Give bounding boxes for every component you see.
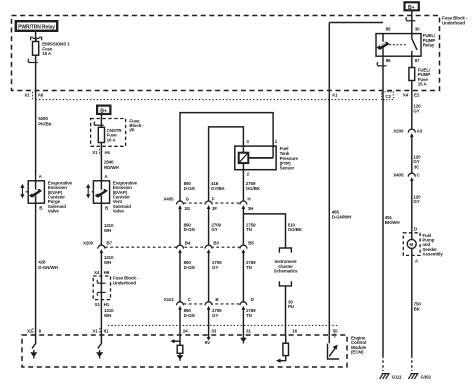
ECM internal circuit pin 24 (arrow, resistor, ground) <box>171 335 183 361</box>
CNSTR fuse label <box>107 128 123 142</box>
D pin label <box>414 226 418 231</box>
wire label 451 BK/WH <box>385 215 400 225</box>
Fuel Tank Pressure sensor <box>235 146 276 170</box>
X405 / C connector <box>393 173 420 181</box>
B+ battery feed (top) <box>405 2 419 11</box>
wire 890 D-GN (B4 to X101) <box>179 253 181 302</box>
svg-text:15 A: 15 A <box>42 51 52 56</box>
svg-text:H6: H6 <box>104 270 110 275</box>
svg-text:Valve: Valve <box>48 209 60 214</box>
wire 428 D-GN/WH <box>35 203 37 335</box>
svg-text:16: 16 <box>292 329 297 334</box>
svg-text:I/P: I/P <box>129 128 134 133</box>
wire 30 PU <box>285 286 287 335</box>
Fuse Block Underhood small label <box>113 276 139 286</box>
X405 pin H connector <box>240 196 251 208</box>
X4 / E2 labels <box>403 93 420 98</box>
connector tick at X2/8 <box>32 328 34 335</box>
svg-text:X200: X200 <box>393 129 404 134</box>
clip terminal below relay 86 <box>377 62 387 66</box>
svg-text:TN: TN <box>246 265 252 270</box>
svg-text:WH: WH <box>104 313 111 318</box>
clip terminal above CNSTR fuse <box>94 122 104 126</box>
wire label 2759 OG/BK (above X405) <box>246 181 261 191</box>
wire label 750 BK <box>414 302 422 312</box>
Fuel Pump and Sender Assembly label <box>422 233 443 257</box>
relay coil rail <box>329 22 383 24</box>
EMISSIONS 1 fuse label <box>42 42 70 56</box>
svg-text:GY: GY <box>211 227 217 232</box>
svg-text:2840: 2840 <box>104 159 114 164</box>
svg-text:X4: X4 <box>403 93 409 98</box>
svg-text:33: 33 <box>211 329 216 334</box>
dotted harness line (upper) <box>36 99 379 101</box>
X101 connector row dashed line <box>184 303 241 305</box>
wire label 2709 GY (below X200) <box>212 260 222 270</box>
svg-text:GY/BK: GY/BK <box>211 186 226 191</box>
svg-text:OG/BK: OG/BK <box>246 186 261 191</box>
ECM box (dashed) <box>22 335 347 367</box>
svg-text:D-GN/WH: D-GN/WH <box>38 265 57 270</box>
svg-text:31: 31 <box>246 329 251 334</box>
svg-text:X405: X405 <box>163 196 174 201</box>
EVAP purge valve label <box>48 180 73 213</box>
svg-text:87: 87 <box>415 58 420 63</box>
FTP pin labels <box>246 139 277 177</box>
wire label 2759 TN (below X101) <box>246 308 256 318</box>
svg-text:30: 30 <box>415 26 420 31</box>
svg-text:M: M <box>410 242 414 247</box>
X200 connector row dashed line <box>105 246 240 248</box>
wire label 465 D-GN/WH <box>332 210 351 220</box>
svg-text:A6: A6 <box>104 150 110 155</box>
svg-text:X4: X4 <box>94 270 100 275</box>
svg-text:TN: TN <box>246 313 252 318</box>
X200 pin B4 connector <box>177 241 191 253</box>
fuse EMISSIONS 1 <box>33 42 39 56</box>
Fuse Block Underhood small dashed box <box>93 276 110 300</box>
svg-text:X405: X405 <box>393 173 404 178</box>
Fuse Block - Underhood box (top, dashed) <box>12 16 440 91</box>
svg-text:GY: GY <box>212 265 218 270</box>
svg-text:D-GN: D-GN <box>184 313 195 318</box>
EVAP canister purge solenoid valve <box>21 181 45 203</box>
svg-text:3F: 3F <box>212 206 217 211</box>
wire 2709 GY (X101 to ECM pin 33) <box>208 310 210 336</box>
X200 pin B7 connector <box>98 241 113 253</box>
Instrument Cluster Schematics label <box>274 259 298 273</box>
svg-text:GY: GY <box>413 159 419 164</box>
wire 2759 TN (X405 to B5) <box>242 209 244 246</box>
PWR/TRN Relay label box <box>16 21 57 31</box>
FTP 5V return rail (pin 1 to X405 G) <box>180 113 273 202</box>
connector tick at X1/A6 <box>32 92 34 100</box>
connector tick at X1/61 <box>99 328 101 335</box>
dashed wire to G111 <box>382 356 384 372</box>
wire label 890 D-GN (below X405) <box>184 222 195 232</box>
FTP sensor label <box>280 146 299 171</box>
dashed wire to G302 <box>411 356 413 372</box>
svg-text:X101: X101 <box>164 297 175 302</box>
X200 pin B5 connector <box>240 241 254 253</box>
wire B+ to relay 30 <box>411 10 413 33</box>
svg-text:D-GN/WH: D-GN/WH <box>332 214 351 219</box>
EVAP purge valve pin labels <box>39 174 44 210</box>
svg-text:24: 24 <box>183 329 188 334</box>
wire label 2759 TN <box>246 222 256 232</box>
ECM pin labels 24 33 31 16 50 <box>183 329 338 334</box>
EVAP vent valve pin labels <box>104 174 109 210</box>
svg-text:3C: 3C <box>414 165 420 170</box>
X405 label <box>163 196 174 201</box>
relay pin labels <box>386 26 420 63</box>
svg-text:BK/WH: BK/WH <box>385 220 400 225</box>
wire label 120 GY <box>413 194 421 204</box>
svg-text:61: 61 <box>104 329 109 334</box>
3C pin label <box>414 165 420 170</box>
ECM internal 5V reference (pin 33) <box>205 335 211 345</box>
wire through small fuse block <box>100 276 102 300</box>
svg-text:(ECM): (ECM) <box>351 350 364 355</box>
svg-text:RD/WH: RD/WH <box>104 165 119 170</box>
svg-text:PK/BK: PK/BK <box>38 122 52 127</box>
svg-text:PWR/TRN Relay: PWR/TRN Relay <box>18 24 55 30</box>
wire 2840 RD/WH <box>100 143 102 181</box>
wire below fuse <box>35 55 37 90</box>
connector tick at pin 50 <box>334 333 336 338</box>
Fuse Block - Underhood label (top right) <box>442 16 468 26</box>
Fuse Block I/P dashed box <box>91 119 126 147</box>
svg-text:X2: X2 <box>27 329 33 334</box>
svg-text:B5: B5 <box>248 241 254 246</box>
FUEL/PUMP fuse <box>409 68 415 81</box>
svg-text:Schematics: Schematics <box>274 269 298 274</box>
fuse holder bracket <box>31 37 42 41</box>
X405 connector row dashed line <box>184 202 241 204</box>
wire label 428 D-GN/WH <box>38 260 57 270</box>
wire label 1310 WH <box>104 255 114 265</box>
ECM internal ground (pin 31) <box>241 335 247 343</box>
svg-text:5290: 5290 <box>38 116 48 121</box>
wire 1310 WH (below X200) <box>100 253 102 276</box>
wire label 2709 GY <box>211 222 221 232</box>
EVAP canister vent solenoid valve <box>87 181 110 203</box>
wire 5290 PK/BK <box>35 91 37 181</box>
svg-text:TN: TN <box>246 227 252 232</box>
wire 890 D-GN (X101 to ECM pin 24) <box>179 310 181 336</box>
wire 750 BK <box>411 255 413 355</box>
svg-text:X1: X1 <box>24 92 30 97</box>
svg-text:F: F <box>212 196 215 201</box>
FUEL/PUMP Relay label <box>423 33 436 47</box>
svg-text:Sensor: Sensor <box>280 166 295 171</box>
clip terminal below B+ <box>406 17 416 21</box>
svg-text:15 A: 15 A <box>418 82 428 87</box>
X4 / H6 labels <box>94 270 110 275</box>
wire label 1310 WH <box>104 308 114 318</box>
svg-text:Assembly: Assembly <box>422 252 443 257</box>
svg-text:X1: X1 <box>95 302 101 307</box>
ground G302 <box>408 374 431 380</box>
X101 label <box>164 297 175 302</box>
510 OG/BK branch wire <box>243 214 285 248</box>
wire label 890 D-GN (below X200) <box>184 260 195 270</box>
B+ battery feed (mid) <box>97 106 110 115</box>
X405 pin F connector <box>205 196 215 208</box>
clip terminals in small fuse block <box>97 280 106 296</box>
svg-text:50: 50 <box>333 329 338 334</box>
svg-text:10 A: 10 A <box>107 137 117 142</box>
svg-text:Valve: Valve <box>113 209 125 214</box>
svg-text:G111: G111 <box>392 374 403 379</box>
svg-text:WH: WH <box>104 260 111 265</box>
wire 1310 WH (to ECM) <box>100 300 102 335</box>
svg-text:GY: GY <box>212 313 218 318</box>
svg-text:A3: A3 <box>417 129 423 134</box>
connector tick at mid X1/A6 <box>99 149 101 155</box>
A pin label <box>415 258 419 263</box>
svg-text:D-GN: D-GN <box>184 227 195 232</box>
svg-text:B7: B7 <box>106 241 112 246</box>
wire label 2759 TN (below X200) <box>246 260 256 270</box>
fuel pump motor <box>407 233 416 256</box>
wire label 5290 PK/BK <box>38 116 52 127</box>
X200 label <box>83 241 94 246</box>
CNSTR fuse <box>98 127 104 142</box>
ECM ground symbol (pin 8) <box>31 335 37 358</box>
svg-text:G302: G302 <box>420 374 431 379</box>
X1 / H1 labels <box>95 302 110 307</box>
wire 451 BK/WH (relay 86 to G111) <box>382 56 384 355</box>
EVAP vent valve label <box>113 180 138 213</box>
svg-text:85: 85 <box>386 26 391 31</box>
svg-text:OG/BK: OG/BK <box>288 227 303 232</box>
svg-text:Relay: Relay <box>423 43 435 48</box>
svg-text:B+: B+ <box>100 108 107 114</box>
svg-text:A1: A1 <box>332 93 338 98</box>
wire label 120 GY <box>413 104 421 114</box>
svg-text:WH: WH <box>104 228 111 233</box>
X1 / A6 connector labels <box>24 92 44 97</box>
Fuse Block I/P label <box>129 118 144 132</box>
svg-text:A6: A6 <box>38 92 44 97</box>
X405 pin G connector <box>177 196 190 208</box>
clip terminal below fuse <box>28 59 38 63</box>
svg-text:86: 86 <box>386 58 391 63</box>
wire 1310 WH (above X200) <box>100 203 102 245</box>
instrument cluster bracket (top) <box>279 248 291 253</box>
wire label 2709 GY (below X101) <box>212 308 222 318</box>
3G / 3F / 3H pin labels <box>184 206 253 211</box>
wire label 890 D-GN (above X405) <box>184 181 195 191</box>
svg-text:428: 428 <box>38 260 46 265</box>
svg-text:BK: BK <box>414 306 421 311</box>
wire 2759 TN (B5 to X101) <box>242 253 244 302</box>
svg-text:3H: 3H <box>248 206 254 211</box>
wire label 120 GY <box>413 154 421 164</box>
svg-text:C2: C2 <box>385 94 391 99</box>
ECM internal circuit pin 16 (resistor, arrow) <box>276 335 288 363</box>
wire 890 D-GN (X405 to B4) <box>179 209 181 246</box>
instrument cluster bracket (bottom) <box>279 281 291 286</box>
ground G111 <box>380 374 403 380</box>
wire label 2840 RD/WH <box>104 159 119 169</box>
svg-text:3G: 3G <box>184 206 190 211</box>
svg-text:PU: PU <box>288 304 294 309</box>
svg-text:D-GN: D-GN <box>184 186 195 191</box>
wire from relay 87 to fuse <box>411 56 413 67</box>
wire 2709 GY (X405 to B3) <box>208 209 210 246</box>
svg-text:Underhood: Underhood <box>442 20 465 25</box>
wire 120 GY (A3 to X405 C) <box>411 137 413 173</box>
wire label 890 D-GN (below X101) <box>184 308 195 318</box>
FUEL/PUMP fuse label <box>418 68 431 87</box>
svg-text:X1: X1 <box>92 150 98 155</box>
svg-text:B4: B4 <box>185 241 191 246</box>
X1 / A6 labels (mid column) <box>92 150 110 155</box>
svg-text:B+: B+ <box>408 5 415 11</box>
A1 pin label <box>332 93 338 98</box>
dotted harness line (lower) <box>108 324 337 326</box>
wire label 510 OG/BK <box>288 222 303 232</box>
wire 120 GY (E2 to X200 A3) <box>411 81 413 130</box>
X200 pin B3 connector <box>205 241 219 253</box>
X101 pin D connector <box>240 297 255 310</box>
wire 2709 GY (B3 to X101) <box>208 253 210 302</box>
ECM ground symbol (pin 61) <box>97 335 103 358</box>
svg-text:5V: 5V <box>205 340 210 345</box>
ECM internal driver (pin 50) <box>328 335 340 359</box>
wire 120 GY (C to pump D) <box>411 181 413 233</box>
svg-text:H1: H1 <box>104 302 110 307</box>
C2 connector dotted box <box>382 92 394 100</box>
wire from PWR/TRN relay to fuse <box>35 31 37 42</box>
X1 / 61 connector labels <box>92 329 109 334</box>
svg-text:D-GN: D-GN <box>184 265 195 270</box>
Engine Control Module label <box>351 335 367 354</box>
svg-text:B3: B3 <box>213 241 219 246</box>
Fuel Pump and Sender Assembly box <box>403 233 420 256</box>
FTP signal rail (pin 3 to X405 F) <box>209 127 244 201</box>
wire label 416 GY/BK (above X405) <box>211 181 226 191</box>
X101 pin C connector <box>177 297 192 310</box>
wire 2759 TN (X101 to ECM pin 31) <box>242 310 244 336</box>
svg-text:GY: GY <box>413 108 419 113</box>
svg-text:X200: X200 <box>83 241 94 246</box>
X2 / 8 connector labels <box>27 329 42 334</box>
FUEL/PUMP relay <box>376 34 421 57</box>
svg-text:Underhood: Underhood <box>113 280 136 285</box>
X101 pin B connector <box>205 297 219 310</box>
wire from B+ to CNSTR fuse <box>100 114 102 127</box>
svg-text:X1: X1 <box>92 329 98 334</box>
svg-text:H: H <box>247 196 250 201</box>
svg-text:GY: GY <box>413 199 419 204</box>
wire 465 D-GN/WH (relay 85 to ECM 50) <box>328 23 330 336</box>
FTP pin 2 wire <box>242 170 244 201</box>
wire label 30 PU <box>288 299 294 309</box>
wire label 1310 WH <box>104 223 114 233</box>
svg-text:E2: E2 <box>414 93 420 98</box>
X200 / A3 connector <box>393 129 422 137</box>
